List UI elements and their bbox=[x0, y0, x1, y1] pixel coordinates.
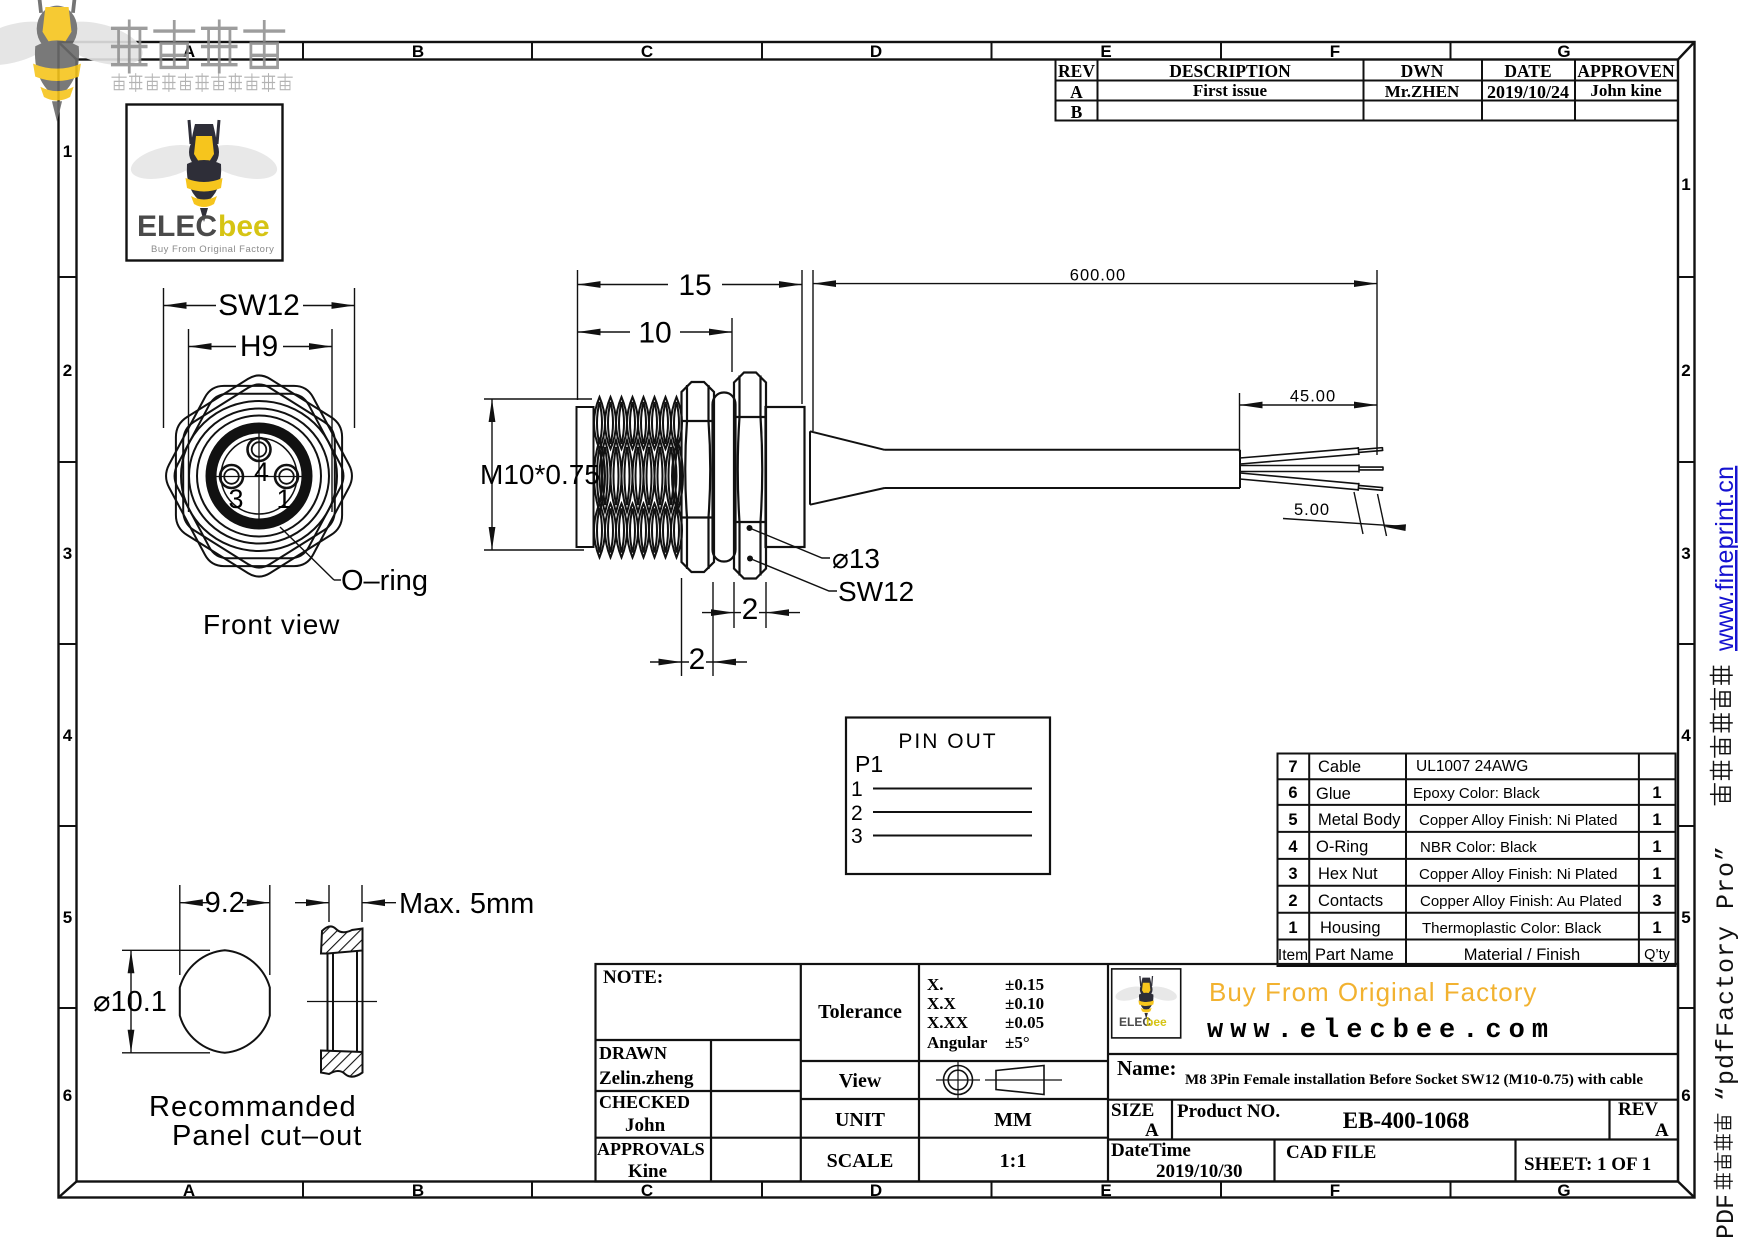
front face plate bbox=[577, 407, 594, 547]
leader dia13 bbox=[747, 525, 753, 531]
svg-text:www.elecbee.com: www.elecbee.com bbox=[1207, 1016, 1555, 1046]
svg-text:Thermoplastic Color: Black: Thermoplastic Color: Black bbox=[1422, 920, 1602, 937]
svg-text:2: 2 bbox=[851, 802, 863, 825]
svg-text:±0.05: ±0.05 bbox=[1005, 1013, 1044, 1032]
svg-text:John kine: John kine bbox=[1590, 81, 1662, 100]
svg-text:B: B bbox=[412, 1181, 424, 1200]
svg-text:1: 1 bbox=[851, 778, 863, 801]
strain relief taper bbox=[810, 431, 885, 504]
dim SW12 extension lines bbox=[164, 288, 355, 512]
svg-text:5.00: 5.00 bbox=[1294, 501, 1330, 519]
dim 9.2 bbox=[180, 885, 270, 975]
svg-text:Cable: Cable bbox=[1318, 758, 1361, 776]
svg-text:bee: bee bbox=[218, 210, 270, 243]
svg-text:APPROVALS: APPROVALS bbox=[597, 1139, 705, 1159]
dim H9 extension lines bbox=[188, 329, 190, 512]
svg-text:2019/10/24: 2019/10/24 bbox=[1487, 82, 1569, 102]
svg-text:2: 2 bbox=[742, 593, 759, 626]
dim H9 line bbox=[189, 346, 237, 348]
PARTS TABLE bbox=[1278, 754, 1676, 967]
svg-text:DateTime: DateTime bbox=[1111, 1140, 1191, 1161]
top hatched part bbox=[321, 926, 363, 953]
svg-text:6: 6 bbox=[1288, 784, 1297, 802]
circles bbox=[181, 401, 337, 551]
main verticals bbox=[800, 964, 802, 1182]
svg-text:X.: X. bbox=[927, 975, 944, 994]
svg-text:A: A bbox=[183, 1181, 195, 1200]
svg-text:1: 1 bbox=[1652, 865, 1661, 883]
svg-text:Housing: Housing bbox=[1320, 919, 1381, 937]
arrows SW12 bbox=[164, 302, 187, 309]
svg-text:Part Name: Part Name bbox=[1315, 946, 1394, 964]
svg-text:bee: bee bbox=[1146, 1015, 1167, 1029]
dim Max 5mm bbox=[295, 885, 396, 922]
svg-text:2: 2 bbox=[1288, 892, 1297, 910]
center line through profile bbox=[307, 1001, 377, 1003]
view projection symbol bbox=[936, 1061, 1062, 1100]
dim 45.00 bbox=[1240, 393, 1378, 452]
svg-text:Copper Alloy Finish: Ni Plated: Copper Alloy Finish: Ni Plated bbox=[1419, 812, 1617, 829]
svg-text:±0.10: ±0.10 bbox=[1005, 994, 1044, 1013]
svg-text:DATE: DATE bbox=[1504, 61, 1551, 81]
WATERMARK chinese text bbox=[112, 21, 283, 72]
svg-text:APPROVEN: APPROVEN bbox=[1577, 61, 1675, 81]
REVISION TABLE top-right bbox=[1056, 60, 1679, 121]
svg-text:View: View bbox=[839, 1070, 882, 1092]
dim 10.1 bbox=[122, 950, 210, 1053]
svg-text:SW12: SW12 bbox=[838, 576, 914, 607]
svg-text:SCALE: SCALE bbox=[827, 1150, 894, 1172]
svg-text:X.X: X.X bbox=[927, 994, 957, 1013]
svg-text:E: E bbox=[1100, 1181, 1111, 1200]
svg-text:10: 10 bbox=[638, 317, 671, 350]
hex nut 2 SW12 bbox=[734, 373, 766, 579]
svg-text:UL1007 24AWG: UL1007 24AWG bbox=[1416, 758, 1528, 775]
FRONT VIEW bbox=[164, 288, 429, 640]
svg-text:Item: Item bbox=[1278, 947, 1308, 964]
svg-text:9.2: 9.2 bbox=[205, 887, 245, 919]
svg-text:5: 5 bbox=[1681, 908, 1690, 927]
svg-text:REV: REV bbox=[1058, 61, 1095, 81]
svg-text:G: G bbox=[1557, 42, 1570, 61]
svg-text:1: 1 bbox=[276, 484, 291, 514]
svg-text:Zelin.zheng: Zelin.zheng bbox=[599, 1068, 694, 1089]
svg-text:1:1: 1:1 bbox=[1000, 1150, 1027, 1172]
svg-text:3: 3 bbox=[1652, 892, 1661, 910]
svg-text:F: F bbox=[1330, 1181, 1340, 1200]
svg-text:1: 1 bbox=[1652, 784, 1661, 802]
outline bbox=[596, 964, 1679, 1182]
svg-text:1: 1 bbox=[1652, 811, 1661, 829]
leader SW12 bbox=[747, 556, 753, 562]
svg-text:M8 3Pin Female installation Be: M8 3Pin Female installation Before Socke… bbox=[1185, 1072, 1643, 1088]
svg-text:3: 3 bbox=[228, 484, 243, 514]
svg-text:Epoxy Color: Black: Epoxy Color: Black bbox=[1413, 785, 1540, 802]
arrows H9 bbox=[189, 343, 212, 350]
RIGHT VERTICAL PDF TEXT bbox=[1710, 466, 1741, 1239]
svg-text:ELEC: ELEC bbox=[137, 210, 217, 243]
svg-text:3: 3 bbox=[851, 825, 863, 848]
bottom hatched part bbox=[321, 1051, 363, 1077]
svg-text:2019/10/30: 2019/10/30 bbox=[1156, 1161, 1243, 1182]
svg-text:John: John bbox=[625, 1115, 666, 1136]
middle column rows bbox=[801, 1060, 1108, 1062]
svg-text:SHEET: 1 OF 1: SHEET: 1 OF 1 bbox=[1524, 1154, 1651, 1175]
svg-text:±5°: ±5° bbox=[1005, 1033, 1030, 1052]
svg-text:First issue: First issue bbox=[1193, 81, 1268, 100]
svg-text:3: 3 bbox=[1681, 544, 1690, 563]
panel side profile with hatch bbox=[321, 926, 364, 1076]
svg-text:1: 1 bbox=[63, 142, 72, 161]
svg-text:Metal Body: Metal Body bbox=[1318, 811, 1401, 829]
svg-text:E: E bbox=[1100, 42, 1111, 61]
svg-text:5: 5 bbox=[1288, 811, 1297, 829]
svg-text:3: 3 bbox=[63, 544, 72, 563]
svg-text:www.fineprint.cn: www.fineprint.cn bbox=[1711, 466, 1739, 652]
svg-text:600.00: 600.00 bbox=[1070, 267, 1126, 285]
svg-text:4: 4 bbox=[63, 726, 73, 745]
metal body bbox=[766, 407, 805, 547]
dim 15 bbox=[578, 270, 803, 404]
wire 1 (top) bbox=[1240, 445, 1383, 465]
svg-text:D: D bbox=[870, 1181, 882, 1200]
left column rows bbox=[596, 1039, 801, 1041]
svg-text:6: 6 bbox=[1681, 1086, 1690, 1105]
PANEL CUT-OUT bbox=[93, 885, 534, 1152]
svg-text:REV: REV bbox=[1618, 1099, 1658, 1120]
svg-text:4: 4 bbox=[1681, 726, 1691, 745]
svg-text:B: B bbox=[412, 42, 424, 61]
svg-text:2: 2 bbox=[63, 361, 72, 380]
svg-text:4: 4 bbox=[1288, 838, 1298, 856]
svg-text:Hex Nut: Hex Nut bbox=[1318, 865, 1378, 883]
svg-text:Front view: Front view bbox=[203, 609, 340, 640]
svg-text:Recommanded: Recommanded bbox=[149, 1091, 357, 1123]
svg-text:CAD FILE: CAD FILE bbox=[1286, 1142, 1376, 1163]
dim 5.00 with ticks bbox=[1262, 492, 1404, 536]
svg-text:CHECKED: CHECKED bbox=[599, 1092, 690, 1112]
PIN OUT box bbox=[846, 718, 1050, 875]
svg-text:Material / Finish: Material / Finish bbox=[1464, 946, 1580, 964]
svg-text:7: 7 bbox=[1288, 758, 1297, 776]
svg-text:±0.15: ±0.15 bbox=[1005, 975, 1044, 994]
svg-text:F: F bbox=[1330, 42, 1340, 61]
svg-text:Mr.ZHEN: Mr.ZHEN bbox=[1385, 82, 1460, 101]
svg-text:1: 1 bbox=[1681, 175, 1690, 194]
O-ring thick black ring bbox=[211, 428, 307, 524]
svg-text:DWN: DWN bbox=[1401, 61, 1444, 81]
dim 2 (hex nut 1) bbox=[650, 578, 747, 676]
svg-text:PDF: PDF bbox=[1712, 1194, 1741, 1239]
svg-text:1: 1 bbox=[1652, 838, 1661, 856]
svg-text:1: 1 bbox=[1652, 919, 1661, 937]
right section rows bbox=[1108, 1053, 1678, 1055]
crosshair bbox=[211, 430, 307, 527]
svg-text:A: A bbox=[1070, 82, 1083, 102]
dim 10 bbox=[578, 318, 733, 372]
svg-text:“pdfFactory Pro”: “pdfFactory Pro” bbox=[1712, 845, 1741, 1101]
cutout circle with flats bbox=[180, 950, 270, 1053]
dim 2 (hex nut 2) bbox=[702, 582, 800, 628]
svg-text:SW12: SW12 bbox=[218, 289, 300, 322]
O-ring leader line bbox=[280, 527, 341, 580]
svg-text:2: 2 bbox=[689, 643, 706, 676]
hex body outer: two overlapping hexagons bbox=[258, 475, 260, 477]
svg-text:⌀13: ⌀13 bbox=[832, 543, 880, 574]
svg-text:Kine: Kine bbox=[628, 1161, 667, 1182]
svg-text:MM: MM bbox=[994, 1109, 1032, 1131]
svg-text:Name:: Name: bbox=[1117, 1056, 1176, 1080]
svg-text:A: A bbox=[1655, 1120, 1669, 1141]
svg-text:A: A bbox=[1145, 1120, 1159, 1141]
svg-text:Angular: Angular bbox=[927, 1033, 988, 1052]
dim 600.00 bbox=[813, 270, 1377, 455]
svg-text:NBR Color: Black: NBR Color: Black bbox=[1420, 839, 1537, 856]
WATERMARK bee logo top-left bbox=[0, 0, 148, 122]
svg-text:SIZE: SIZE bbox=[1111, 1100, 1154, 1121]
svg-text:H9: H9 bbox=[240, 330, 278, 363]
pin 4 (top) bbox=[248, 438, 271, 461]
dim M10*0.75 bbox=[484, 399, 592, 550]
svg-text:EB-400-1068: EB-400-1068 bbox=[1343, 1108, 1470, 1133]
dim SW12 line bbox=[164, 305, 217, 307]
svg-text:⌀10.1: ⌀10.1 bbox=[93, 986, 167, 1018]
thread M10 profile bbox=[594, 397, 683, 558]
pin 3 (left) bbox=[220, 465, 243, 488]
wire 2 (middle) bbox=[1240, 465, 1383, 473]
svg-text:DESCRIPTION: DESCRIPTION bbox=[1169, 61, 1291, 81]
svg-text:Buy From Original Factory: Buy From Original Factory bbox=[1209, 977, 1537, 1007]
svg-text:15: 15 bbox=[678, 269, 711, 302]
svg-text:6: 6 bbox=[63, 1086, 72, 1105]
zone tick marks left/right bbox=[59, 276, 77, 278]
cable bbox=[885, 450, 1241, 488]
inner vertical lines bbox=[327, 954, 329, 1051]
svg-text:Contacts: Contacts bbox=[1318, 892, 1383, 910]
svg-text:4: 4 bbox=[254, 457, 269, 487]
svg-text:D: D bbox=[870, 42, 882, 61]
svg-text:Max. 5mm: Max. 5mm bbox=[399, 888, 534, 920]
svg-text:Buy From Original Factory: Buy From Original Factory bbox=[151, 244, 274, 255]
svg-text:B: B bbox=[1071, 102, 1083, 122]
svg-text:3: 3 bbox=[1288, 865, 1297, 883]
svg-text:C: C bbox=[641, 42, 653, 61]
svg-text:1: 1 bbox=[1288, 919, 1297, 937]
svg-text:Copper Alloy Finish: Au Plated: Copper Alloy Finish: Au Plated bbox=[1420, 893, 1622, 910]
svg-text:45.00: 45.00 bbox=[1290, 388, 1336, 406]
svg-text:C: C bbox=[641, 1181, 653, 1200]
svg-text:PIN OUT: PIN OUT bbox=[898, 730, 997, 753]
svg-text:Copper Alloy Finish: Ni Plated: Copper Alloy Finish: Ni Plated bbox=[1419, 866, 1617, 883]
svg-text:X.XX: X.XX bbox=[927, 1013, 969, 1032]
svg-text:P1: P1 bbox=[855, 751, 883, 777]
small elecbee logo in title block bbox=[1112, 969, 1181, 1038]
svg-text:NOTE:: NOTE: bbox=[603, 967, 663, 988]
o-ring washer capsule bbox=[713, 393, 736, 562]
svg-text:Product NO.: Product NO. bbox=[1177, 1101, 1280, 1122]
svg-text:UNIT: UNIT bbox=[835, 1109, 886, 1131]
svg-text:Panel cut–out: Panel cut–out bbox=[172, 1120, 362, 1152]
svg-text:Q’ty: Q’ty bbox=[1644, 947, 1671, 963]
svg-text:G: G bbox=[1557, 1181, 1570, 1200]
svg-text:Tolerance: Tolerance bbox=[818, 1001, 902, 1023]
svg-text:5: 5 bbox=[63, 908, 72, 927]
svg-text:O–ring: O–ring bbox=[341, 565, 428, 597]
TITLE BLOCK bbox=[596, 964, 1679, 1182]
svg-text:DRAWN: DRAWN bbox=[599, 1043, 667, 1063]
wire 3 (bottom) bbox=[1240, 472, 1383, 493]
svg-text:Glue: Glue bbox=[1316, 785, 1351, 803]
ELECBEE LOGO BOX bbox=[127, 105, 283, 261]
svg-text:2: 2 bbox=[1681, 361, 1690, 380]
svg-text:O-Ring: O-Ring bbox=[1316, 838, 1368, 856]
svg-text:M10*0.75: M10*0.75 bbox=[480, 459, 600, 490]
corner diagonals bbox=[59, 42, 77, 60]
hex nut 1 bbox=[682, 382, 715, 572]
zone tick marks bottom bbox=[302, 1182, 304, 1198]
pin 1 (right) bbox=[275, 465, 298, 488]
